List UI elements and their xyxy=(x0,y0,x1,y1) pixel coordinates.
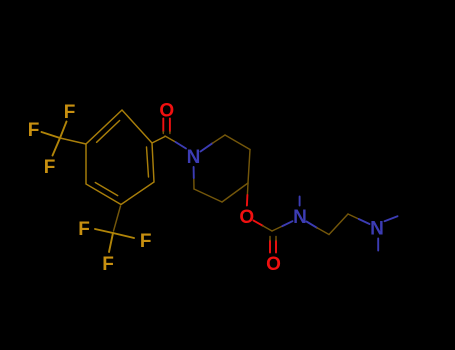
bond C3-N1 xyxy=(165,136,176,142)
svg-text:O: O xyxy=(266,254,281,275)
bond P6-N1 xyxy=(193,178,195,189)
bond P5-P6 xyxy=(194,189,222,202)
double bond C7=O carbamate carbon tails xyxy=(270,237,276,241)
bond O ester-C7 xyxy=(254,221,263,226)
svg-text:F: F xyxy=(78,219,90,240)
svg-text:F: F xyxy=(64,102,76,123)
svg-text:F: F xyxy=(44,157,56,178)
bond C7-N2 xyxy=(272,226,282,231)
svg-text:F: F xyxy=(140,231,152,252)
methyl stub down on N3 xyxy=(377,239,379,251)
bond P2-P3 xyxy=(225,135,250,150)
svg-text:O: O xyxy=(239,207,254,228)
double bond C3=O amide xyxy=(163,119,170,132)
double bond C3=O amide carbon tails xyxy=(163,132,170,134)
bond ring-C2 xyxy=(114,206,121,231)
bond C2-F6 xyxy=(109,233,113,252)
bond C1-F1 xyxy=(60,122,67,139)
bond ring-C3 xyxy=(152,137,165,144)
methyl stub up-right on N3 xyxy=(385,216,398,221)
bond P3-P4 xyxy=(248,150,250,184)
bond C11-N3 xyxy=(348,214,359,219)
svg-text:F: F xyxy=(102,254,114,275)
bond C2-F5 xyxy=(113,233,134,238)
bond P4-P5 xyxy=(222,183,248,202)
bond P4-O ester xyxy=(246,183,249,195)
benzene ring xyxy=(86,110,154,205)
svg-text:N: N xyxy=(187,147,201,168)
bond C2-F4 xyxy=(95,229,113,233)
methyl stub on N2 xyxy=(299,197,301,206)
svg-text:N: N xyxy=(293,207,307,228)
svg-text:O: O xyxy=(159,101,174,122)
svg-text:N: N xyxy=(370,219,384,240)
double bond C7=O carbamate xyxy=(270,241,276,253)
bond C1-F3 xyxy=(53,138,61,156)
bond C1-ring xyxy=(60,138,86,144)
bond N2-C10 xyxy=(307,222,318,228)
bond C1-F2 xyxy=(42,132,61,138)
bond C10-C11 xyxy=(329,214,348,235)
svg-text:F: F xyxy=(28,120,40,141)
bond N1-P2 xyxy=(201,143,213,151)
